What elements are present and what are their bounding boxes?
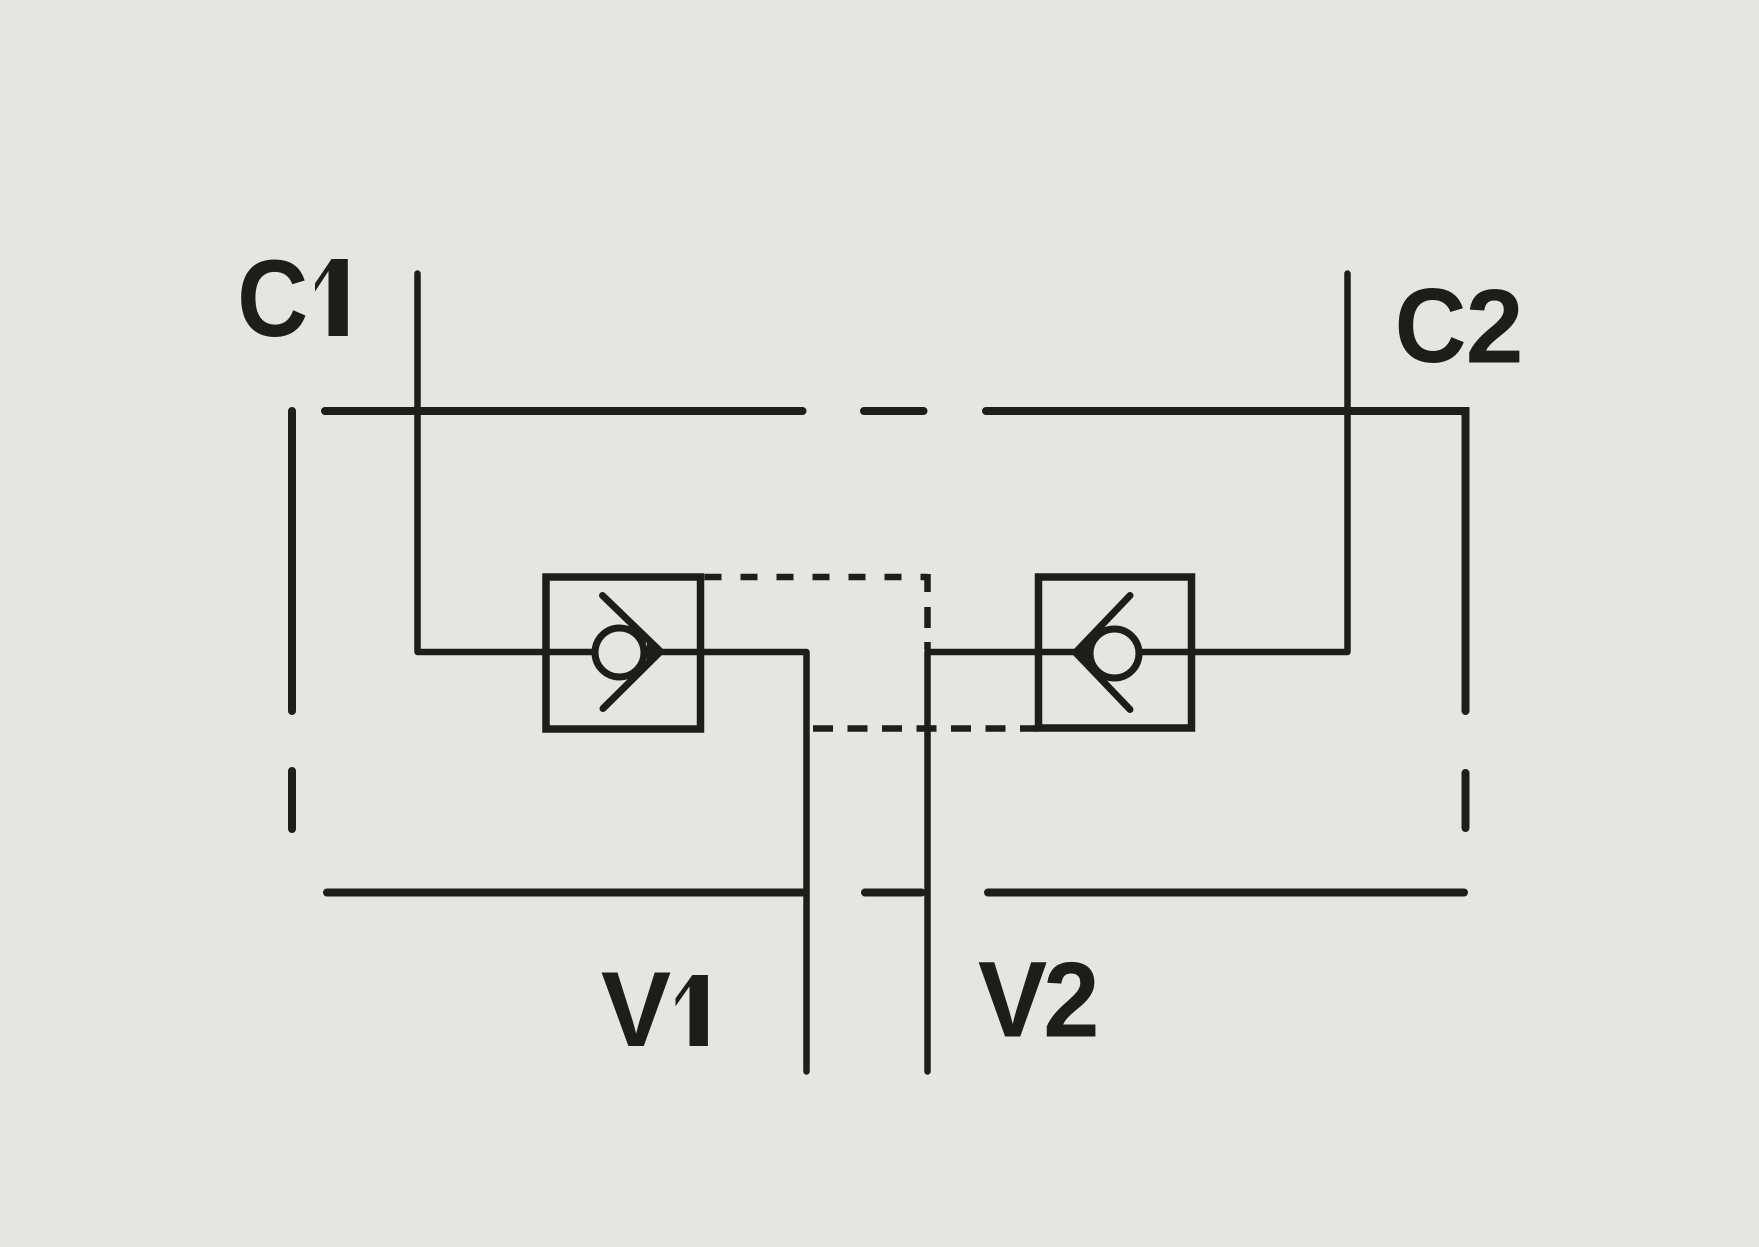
label V1 [601,950,708,1069]
wire: top boundary middle dash [864,407,924,415]
svg-text:V: V [978,940,1047,1060]
wire: left dashed boundary of valve body [288,411,296,829]
label C1 [237,238,348,360]
check valve CV2 ball circle [1090,629,1139,678]
check valve CV1 square box [546,577,701,729]
pilot line dashed: vertical drop to V2 junction [924,574,931,650]
check valve CV1 seat chevron [603,596,661,709]
pilot line dashed: from CV1 box top-right corner across to V2 line [701,574,928,581]
wire: V2 port line up through check valve CV2 to C2 port [928,274,1348,1072]
wire: C1 port line down through check valve CV1 to V1 port [418,274,807,1072]
svg-text:2: 2 [1466,268,1524,386]
wire: top boundary line left segment [325,407,803,415]
wire: top boundary right segment + right dashed boundary of valve body [986,411,1466,828]
svg-text:2: 2 [1043,941,1099,1060]
wire: bottom boundary right segment [988,889,1464,897]
check valve CV2 seat chevron [1076,596,1131,710]
check valve CV2 square box [1039,577,1192,728]
check valve CV2 seat apex [1076,644,1089,663]
check valve CV1 ball circle [595,628,644,677]
wire: bottom boundary middle dash [865,889,922,897]
check valve CV1 seat apex [647,643,661,662]
wire: bottom boundary line left segment [327,889,803,897]
svg-text:C: C [1395,266,1467,384]
svg-text:C: C [237,238,308,360]
pilot line dashed: bottom from V1 line across to CV2 box bottom-left corner [813,725,1039,732]
svg-text:V: V [601,950,671,1069]
label V2 [978,940,1100,1060]
label C2 [1395,266,1524,385]
